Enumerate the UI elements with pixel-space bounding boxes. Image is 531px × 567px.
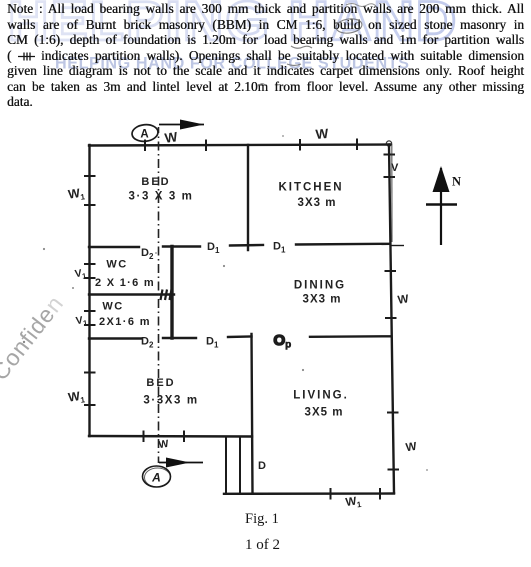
svg-text:W: W — [164, 129, 179, 146]
svg-text:3·3X3 m: 3·3X3 m — [143, 395, 198, 407]
svg-text:3·3 X 3 m: 3·3 X 3 m — [129, 191, 194, 203]
wall: bed1 south seg — [163, 245, 200, 247]
svg-text:DINING: DINING — [294, 280, 346, 292]
wall: seg south of wc-east — [163, 337, 196, 339]
svg-text:2 X 1·6 m: 2 X 1·6 m — [95, 277, 155, 289]
room and door labels — [67, 126, 417, 511]
ticks top wall — [144, 140, 146, 152]
svg-text:BED: BED — [146, 377, 175, 389]
wall: living left — [252, 334, 253, 494]
svg-text:LIVING.: LIVING. — [293, 390, 349, 402]
wall: dining/living divider — [310, 335, 391, 338]
wall: wc2 south — [89, 337, 141, 339]
svg-text:W1: W1 — [67, 388, 86, 406]
section line A-A — [158, 127, 160, 463]
svg-text:Op: Op — [274, 332, 292, 351]
svg-text:V1: V1 — [75, 314, 88, 329]
svg-text:D1: D1 — [273, 241, 286, 255]
svg-text:3X3 m: 3X3 m — [298, 197, 337, 209]
svg-text:BED: BED — [141, 176, 170, 188]
pen doodles in note area — [258, 4, 376, 87]
watermark: Confide (rotated grey) — [0, 290, 69, 385]
svg-text:WC: WC — [102, 301, 123, 313]
svg-text:D1: D1 — [207, 241, 220, 255]
wall: wc partition — [89, 293, 174, 295]
svg-text:V1: V1 — [74, 267, 87, 282]
partition hatch marks — [161, 290, 172, 301]
wall: wc east — [170, 247, 173, 339]
svg-text:KITCHEN: KITCHEN — [278, 182, 343, 194]
wall: kitchen left — [247, 145, 249, 250]
svg-text:D1: D1 — [206, 336, 219, 350]
svg-text:W1: W1 — [67, 185, 86, 203]
wall: seg right of D1 — [230, 244, 263, 247]
wall: outer top — [89, 145, 390, 146]
north arrow — [426, 166, 461, 245]
svg-text:D2: D2 — [141, 247, 154, 261]
svg-text:D2: D2 — [141, 336, 154, 350]
overshoot at kitchen divider — [391, 245, 404, 247]
wall: kitchen/dining divider — [296, 243, 390, 246]
section marker top: circle A — [131, 123, 159, 142]
svg-text:WC: WC — [106, 259, 127, 271]
svg-text:3X3 m: 3X3 m — [303, 294, 342, 306]
svg-text:W: W — [158, 438, 170, 451]
section marker bottom: circle A — [143, 466, 171, 487]
caption Fig. 1 — [245, 511, 279, 528]
note paragraph — [7, 1, 524, 110]
wall: outer left — [88, 145, 90, 436]
ticks bed2 bottom wall — [143, 431, 145, 443]
wall: bed2 north seg — [228, 335, 252, 338]
ticks living bottom wall — [330, 488, 332, 500]
svg-text:A: A — [140, 129, 148, 141]
svg-text:W: W — [315, 126, 329, 142]
svg-text:A: A — [151, 471, 161, 485]
window/vent ticks — [84, 139, 404, 500]
svg-text:2X1·6 m: 2X1·6 m — [99, 316, 151, 328]
caption 1 of 2 — [245, 537, 280, 554]
section marker top: arrow — [159, 120, 204, 130]
svg-text:W1: W1 — [345, 495, 363, 511]
steps line 1 — [225, 437, 227, 494]
wall: living bottom — [224, 492, 394, 495]
ticks left wall — [84, 175, 96, 177]
svg-text:W: W — [397, 293, 410, 306]
svg-text:D: D — [258, 460, 266, 472]
wall: bed2 bottom — [89, 435, 252, 438]
svg-text:W: W — [405, 441, 418, 454]
steps line 2 — [239, 437, 241, 494]
retrace: right wall double stroke — [391, 144, 393, 242]
wall: outer right — [389, 145, 394, 494]
retrace: bottom A circle second pass — [145, 468, 171, 487]
wall: wc1 north — [89, 246, 139, 248]
svg-text:N: N — [452, 175, 461, 189]
retrace: corner loop top-right — [386, 141, 391, 146]
svg-text:3X5 m: 3X5 m — [305, 407, 344, 419]
ticks right wall — [384, 154, 396, 156]
section marker bottom: arrow — [159, 458, 203, 468]
